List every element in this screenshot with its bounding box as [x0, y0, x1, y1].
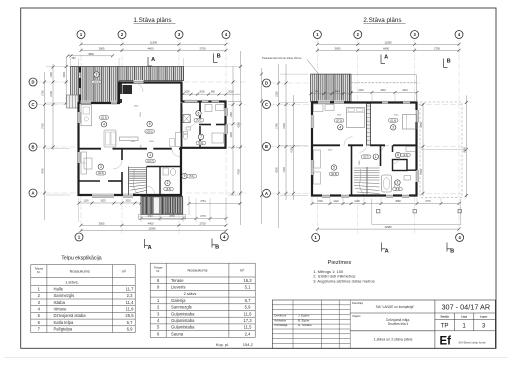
plan2 roof outline dashed right — [420, 102, 462, 198]
plan1 top detail dims 200 3860 — [68, 55, 113, 57]
plan1 terrace hatch (room 8 Terase) — [71, 67, 120, 103]
plan1 wc fixtures — [163, 168, 169, 175]
svg-text:1.stāva un 2.stāva plāns: 1.stāva un 2.stāva plāns — [374, 337, 413, 341]
svg-text:1050: 1050 — [184, 91, 190, 94]
svg-text:2210: 2210 — [402, 89, 408, 92]
svg-text:(2.4): (2.4) — [403, 154, 408, 157]
svg-text:Nr.: Nr. — [37, 270, 41, 274]
plan2 bottom chain total 11580 — [317, 228, 459, 230]
title block left grid — [272, 300, 350, 348]
svg-text:2750: 2750 — [434, 46, 440, 50]
svg-text:B: B — [215, 244, 219, 250]
svg-text:Galerija: Galerija — [171, 298, 186, 303]
svg-text:4: 4 — [103, 123, 105, 127]
plan1 fireplace block — [123, 85, 133, 94]
svg-text:Stadija: Stadija — [440, 315, 449, 319]
plan1 interior wall wing rooms y=124.5 — [199, 124, 211, 126]
svg-text:1750: 1750 — [42, 90, 45, 96]
svg-text:B. Eglīte: B. Eglīte — [298, 318, 310, 322]
svg-text:25,5: 25,5 — [125, 313, 134, 318]
svg-text:2: 2 — [397, 181, 399, 185]
svg-text:8: 8 — [96, 73, 98, 77]
svg-text:16,3: 16,3 — [243, 278, 252, 283]
svg-text:B: B — [447, 58, 451, 64]
svg-text:1: 1 — [375, 155, 377, 159]
plan1 wing fixtures boiler — [205, 105, 212, 112]
plan2 room3 label — [388, 119, 398, 123]
plan2 bed room4 — [347, 108, 365, 128]
svg-text:Guļamistaba: Guļamistaba — [171, 311, 195, 316]
svg-text:Dzīvojamā istaba: Dzīvojamā istaba — [54, 313, 87, 318]
plan1 grid circles bottom: 1 and 4 — [75, 233, 83, 241]
plan1 bottom near dims — [79, 202, 141, 204]
svg-text:1010: 1010 — [125, 200, 131, 203]
svg-text:2,3: 2,3 — [127, 293, 133, 298]
svg-text:3: 3 — [482, 323, 486, 330]
plan2 top dim segments — [317, 49, 459, 51]
plan1 room 7 Paligtelpa label — [198, 134, 203, 139]
svg-text:2751: 2751 — [200, 200, 206, 203]
svg-text:Telpu eksplikācija: Telpu eksplikācija — [61, 256, 101, 262]
left explication table — [31, 265, 135, 333]
svg-text:1540: 1540 — [380, 89, 386, 92]
plan1 window north-west wall — [81, 101, 91, 104]
plan2 top dim chain total — [317, 43, 459, 45]
plan1 room 8 Terase label — [94, 72, 99, 77]
plan2 sauna bench — [406, 147, 416, 152]
svg-text:(2.3): (2.3) — [166, 188, 171, 191]
svg-text:1790: 1790 — [50, 72, 53, 78]
svg-text:A: A — [384, 54, 388, 60]
svg-text:Arhitekte: Arhitekte — [274, 318, 286, 322]
svg-text:SIA "LANGE un kompānija": SIA "LANGE un kompānija" — [376, 305, 415, 309]
svg-text:D: D — [32, 80, 35, 85]
plan2 right dim chains — [422, 103, 424, 196]
plan1 room 9 Lieveris label — [182, 173, 187, 178]
svg-text:B: B — [217, 53, 221, 59]
plan2 room6 Sauna label — [395, 152, 400, 157]
plan1 grid horizontal lines — [38, 81, 71, 83]
plan2 sink room2 — [404, 176, 411, 181]
svg-text:Druvītes iela 4: Druvītes iela 4 — [388, 322, 409, 326]
title block outer — [272, 300, 495, 348]
svg-text:Nr.: Nr. — [156, 269, 160, 273]
svg-text:(16.3): (16.3) — [93, 81, 99, 84]
plan2 stair shaft walls bottom — [351, 145, 353, 195]
svg-text:5: 5 — [333, 166, 335, 170]
plan1 sofa living room — [104, 130, 116, 147]
svg-text:6,9: 6,9 — [127, 327, 133, 332]
plan2 grid circles left D C B A — [263, 79, 271, 87]
svg-text:Halle: Halle — [54, 286, 64, 291]
plan1 bottom chain total 11590 — [81, 230, 226, 232]
svg-text:B: B — [32, 145, 35, 150]
svg-text:1.Stāva plāns: 1.Stāva plāns — [133, 17, 171, 24]
plan2 grid horizontal lines — [271, 82, 309, 84]
svg-text:4400: 4400 — [383, 46, 389, 50]
plan1 extension lines top — [70, 58, 72, 67]
svg-text:1700: 1700 — [317, 200, 323, 203]
plan2 room5 label — [331, 165, 336, 170]
svg-text:5,1: 5,1 — [245, 285, 251, 290]
svg-text:Guļamistaba: Guļamistaba — [171, 325, 195, 330]
plan1 top dimension chain total 11590 — [81, 43, 226, 45]
svg-text:3. Augstuma atzīmes dotas metr: 3. Augstuma atzīmes dotas metros — [313, 278, 375, 283]
svg-text:2100: 2100 — [354, 200, 360, 203]
svg-text:5,9: 5,9 — [245, 305, 251, 310]
svg-text:Istaba: Istaba — [54, 300, 66, 305]
svg-text:1900: 1900 — [230, 132, 233, 138]
svg-text:3005: 3005 — [99, 221, 105, 225]
svg-text:(11.5): (11.5) — [331, 173, 337, 176]
stadija lapa lapas header — [435, 313, 495, 331]
svg-text:Piezīmes: Piezīmes — [327, 260, 351, 266]
svg-text:(6.9): (6.9) — [198, 142, 203, 145]
plan2 windows south wall — [322, 194, 330, 197]
svg-text:4: 4 — [339, 125, 341, 129]
svg-text:1700: 1700 — [283, 167, 286, 173]
plan2 door swings — [344, 137, 400, 164]
svg-text:2770: 2770 — [200, 215, 206, 218]
svg-text:Katla telpa: Katla telpa — [54, 320, 74, 325]
plan1 top dimension chain segments 3005 4400 2750 — [81, 49, 226, 51]
svg-text:(11.4): (11.4) — [98, 172, 104, 175]
svg-text:m²: m² — [240, 269, 245, 273]
svg-text:Guļamistaba: Guļamistaba — [171, 318, 195, 323]
svg-text:(6.7): (6.7) — [364, 156, 369, 159]
plan1 interior wall sw room y=181 — [79, 180, 101, 182]
plan1 wing fixtures bottom room — [212, 133, 224, 143]
plan1 outer walls — [79, 83, 226, 196]
svg-text:2,4: 2,4 — [245, 331, 251, 336]
plan1 extension lines bottom — [78, 198, 80, 222]
svg-text:2750: 2750 — [200, 46, 206, 50]
plan1 dim right of porch — [189, 203, 240, 205]
svg-text:A: A — [148, 245, 152, 251]
svg-text:2750: 2750 — [200, 221, 206, 225]
plan2 windows north wall — [318, 100, 330, 103]
svg-text:Lieveris: Lieveris — [171, 285, 185, 290]
svg-text:1500: 1500 — [63, 72, 66, 78]
plan1 extension lines right — [228, 101, 242, 103]
plan1 wing top dims 1050 2000 800 — [181, 93, 241, 95]
svg-text:1: 1 — [149, 153, 151, 157]
svg-text:11590: 11590 — [150, 40, 158, 44]
svg-text:Izstrādāja: Izstrādāja — [274, 323, 287, 327]
svg-text:11,4: 11,4 — [126, 300, 135, 305]
plan2 chimney duct — [367, 104, 371, 146]
plan1 interior wall kitchen x=121 — [120, 84, 122, 95]
plan1 table room3 — [84, 158, 92, 169]
svg-text:(11.7): (11.7) — [147, 160, 153, 163]
plan1 room 5 Dzivojama istaba label — [147, 121, 152, 126]
svg-text:A: A — [151, 57, 155, 63]
svg-text:Sauna: Sauna — [171, 331, 184, 336]
plan1 section marker A bottom — [144, 239, 146, 248]
plan1 interior wall wing divider x=200 — [199, 102, 201, 119]
svg-text:6,7: 6,7 — [245, 298, 251, 303]
svg-text:A: A — [265, 191, 268, 196]
svg-text:2030: 2030 — [228, 91, 234, 94]
svg-text:(25.5): (25.5) — [146, 130, 152, 133]
svg-text:1790: 1790 — [276, 123, 279, 129]
plan1 wing west wall x=181.4 — [180, 103, 182, 147]
svg-text:1100: 1100 — [83, 200, 89, 203]
plan1 west wall posts through terrace — [79, 67, 81, 73]
svg-text:Palīgtelpa: Palīgtelpa — [54, 327, 73, 332]
svg-text:A: A — [32, 191, 35, 196]
svg-text:11,6: 11,6 — [244, 311, 253, 316]
plan2 section marker A bottom — [381, 243, 383, 252]
plan1 windows south wall — [92, 194, 114, 197]
svg-text:C: C — [265, 102, 268, 107]
plan1 room 3 Istaba label — [98, 164, 103, 169]
svg-text:Lapas: Lapas — [480, 315, 488, 319]
svg-text:2700: 2700 — [42, 123, 45, 129]
plan2 dims over terrace hatch — [311, 93, 351, 95]
plan2 wardrobe room5 — [314, 150, 321, 168]
svg-text:3: 3 — [100, 165, 102, 169]
svg-text:4400: 4400 — [148, 221, 154, 225]
svg-text:A: A — [385, 248, 389, 254]
svg-text:800: 800 — [211, 91, 216, 94]
plan1 door swings — [113, 83, 197, 194]
svg-text:Virtuve: Virtuve — [54, 307, 68, 312]
svg-text:J. Eglītis: J. Eglītis — [298, 313, 310, 317]
plan1 hall lower cabinet — [120, 137, 139, 141]
svg-text:G. Svilāne: G. Svilāne — [298, 323, 312, 327]
plan1 windows west wall — [78, 112, 81, 123]
svg-text:4180: 4180 — [291, 147, 294, 153]
svg-text:(5.9): (5.9) — [395, 188, 400, 191]
svg-text:3005: 3005 — [99, 46, 105, 50]
plan1 room3 wardrobe west wall — [81, 152, 87, 174]
svg-text:2100: 2100 — [276, 91, 279, 97]
svg-text:17,3: 17,3 — [243, 318, 252, 323]
svg-text:4700: 4700 — [420, 169, 423, 175]
plan1 section marker B top right — [213, 54, 215, 63]
svg-text:11590: 11590 — [384, 40, 392, 44]
plan2 wardrobe top-left — [314, 104, 324, 112]
plan1 bottom chain segments — [81, 224, 226, 226]
plan1 room 1 Halle label — [147, 152, 152, 157]
plan1 interior wall grid-B horizontal y=147 — [79, 148, 102, 150]
plan2 left dim chains — [261, 68, 263, 224]
plan2 windows east wall — [415, 110, 418, 122]
svg-text:Sanmezgls: Sanmezgls — [54, 293, 75, 298]
svg-text:(11.6): (11.6) — [390, 119, 396, 122]
plan2 room2 label — [395, 180, 400, 185]
svg-text:11590: 11590 — [148, 226, 156, 230]
svg-text:2.Stāva plāns: 2.Stāva plāns — [363, 17, 401, 24]
plan2 grid circles bottom 1 4 — [312, 234, 320, 242]
svg-text:2.stāvs: 2.stāvs — [184, 291, 197, 296]
plan2 outer walls — [312, 103, 417, 196]
svg-text:Pasūtītājs: Pasūtītājs — [352, 302, 364, 305]
plan2 roof outline bottom (south balcony) — [372, 199, 461, 224]
svg-text:1925: 1925 — [100, 200, 106, 203]
plan1 entry steps platform — [139, 215, 186, 220]
svg-text:3005: 3005 — [335, 46, 341, 50]
svg-text:2770: 2770 — [425, 200, 431, 203]
plan1 grid circles top: 1 2 3 4 — [77, 31, 85, 39]
svg-text:307 - 04/17 AR: 307 - 04/17 AR — [441, 302, 490, 311]
plan1 windows wing north wall — [185, 99, 198, 102]
plan1 room 6 Katla telpa label — [196, 111, 201, 116]
svg-text:TP: TP — [441, 323, 449, 330]
scanner artifact line bottom — [4, 357, 508, 359]
plan2 grid vertical lines — [316, 39, 318, 73]
plan2 section marker B top right — [443, 59, 445, 68]
svg-text:2100: 2100 — [50, 91, 53, 97]
plan1 grid circles left: D C B A — [29, 78, 37, 86]
plan2 room4 label — [334, 119, 344, 123]
svg-text:1760: 1760 — [230, 112, 233, 118]
svg-text:1222: 1222 — [333, 200, 339, 203]
svg-text:3: 3 — [392, 126, 394, 130]
svg-text:11,9: 11,9 — [126, 307, 135, 312]
svg-text:11,5: 11,5 — [244, 325, 253, 330]
svg-text:4200: 4200 — [276, 167, 279, 173]
svg-text:Sanmezgls: Sanmezgls — [171, 305, 192, 310]
plan2 room1 Galerija label — [361, 155, 371, 159]
plan2 toilet room2 — [395, 182, 400, 189]
svg-text:3860: 3860 — [88, 53, 94, 56]
plan2 extension lines — [311, 94, 313, 101]
svg-text:1.stāvs.: 1.stāvs. — [65, 280, 79, 285]
plan1 terrace steps bottom-left — [67, 95, 79, 108]
svg-text:Lapa: Lapa — [461, 315, 468, 319]
svg-text:Direktors: Direktors — [274, 313, 287, 317]
svg-text:11,7: 11,7 — [126, 286, 135, 291]
svg-text:2000: 2000 — [199, 91, 205, 94]
plan2 winder stair bottom — [354, 167, 380, 195]
plan1 entrance porch hatch — [141, 197, 183, 215]
svg-text:9: 9 — [184, 174, 186, 178]
svg-text:5,7: 5,7 — [127, 320, 133, 325]
svg-text:3080: 3080 — [395, 200, 401, 203]
svg-text:7: 7 — [200, 135, 202, 139]
plan2 bathtub room2 — [382, 175, 392, 192]
svg-text:(11.9): (11.9) — [101, 117, 107, 120]
svg-text:2: 2 — [167, 181, 169, 185]
plan1 room5 east wall furniture — [176, 133, 181, 147]
svg-text:(17.3): (17.3) — [336, 119, 342, 122]
plan2 balcony terrace hatch top-left — [311, 74, 352, 101]
svg-text:1: 1 — [462, 323, 466, 330]
plan1 porch strip hatch (room 9 Lieveris) — [119, 67, 184, 81]
plan2 south balcony posts — [377, 210, 380, 213]
plan2 windows west wall — [311, 115, 314, 128]
plan1 kitchen counter — [81, 105, 92, 126]
plan1 section marker B bottom — [211, 239, 213, 248]
svg-text:Kop. pl.: Kop. pl. — [216, 342, 230, 347]
plan1 interior wall x=122 south part — [121, 149, 123, 160]
plan2 bottom near dims — [312, 203, 459, 205]
svg-text:Objekts: Objekts — [352, 315, 361, 318]
plan1 windows east wing wall — [225, 108, 228, 116]
plan1 right dimension chains — [232, 67, 234, 197]
plan1 extension lines left — [46, 66, 70, 68]
svg-text:Piekaramās bēniņu lūkas 20mm: Piekaramās bēniņu lūkas 20mm — [262, 56, 302, 60]
svg-text:4700: 4700 — [42, 168, 45, 174]
plan2 grid circles top 1 2 3 4 — [313, 31, 321, 39]
svg-text:5: 5 — [149, 122, 151, 126]
svg-text:Nosaukums: Nosaukums — [70, 270, 90, 274]
plan2 roof outline dashed top — [351, 74, 416, 76]
svg-text:D: D — [265, 81, 268, 86]
svg-text:1240: 1240 — [358, 89, 364, 92]
plan1 left dimension chains — [44, 72, 46, 220]
plan1 stair/hall walls — [146, 167, 148, 196]
plan1 room 4 Virtuve label — [99, 116, 109, 120]
svg-text:Nosaukums: Nosaukums — [187, 269, 207, 273]
svg-text:(5.7): (5.7) — [196, 119, 201, 122]
plan1 porch steps dark block — [167, 198, 183, 214]
svg-text:4400: 4400 — [148, 46, 154, 50]
right explication table — [150, 263, 255, 337]
plan1 section marker A top — [147, 57, 149, 66]
plan2 interior mid wall — [312, 144, 340, 146]
svg-text:Terase: Terase — [171, 278, 184, 283]
plan2 section marker B bottom — [446, 243, 448, 252]
plan2 section marker A top — [380, 55, 382, 64]
svg-text:2730: 2730 — [283, 123, 286, 129]
svg-text:6: 6 — [397, 153, 399, 157]
svg-text:SIA Elektri ideju fonds: SIA Elektri ideju fonds — [459, 340, 487, 344]
svg-text:11580: 11580 — [384, 225, 392, 229]
plan1 room 2 Sanmezgls label — [165, 180, 170, 185]
svg-text:B: B — [265, 144, 268, 149]
svg-text:m²: m² — [122, 270, 127, 274]
svg-text:4700: 4700 — [238, 169, 241, 175]
plan2 near-wall top dims — [312, 91, 417, 93]
svg-text:Ef: Ef — [440, 336, 452, 348]
plan1 door gap north mid wall — [134, 80, 144, 83]
svg-text:(5.1): (5.1) — [189, 175, 194, 178]
svg-text:C: C — [32, 102, 35, 107]
plan1 winder stair — [129, 168, 146, 194]
plan1 grid vertical lines — [80, 39, 82, 67]
title block middle cells — [350, 300, 435, 348]
svg-text:4250: 4250 — [420, 122, 423, 128]
svg-text:4250: 4250 — [238, 122, 241, 128]
svg-text:154,2: 154,2 — [243, 342, 254, 347]
plan1 shaft box with X — [183, 115, 190, 123]
svg-text:B: B — [450, 248, 454, 254]
svg-text:6: 6 — [198, 112, 200, 116]
plan2 sauna walls — [392, 145, 394, 152]
plan2 bed room3 — [403, 115, 417, 130]
